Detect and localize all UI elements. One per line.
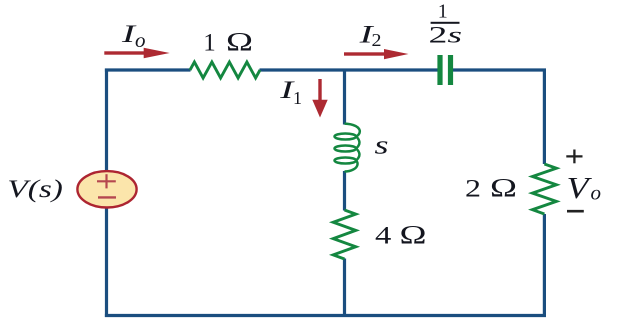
resistor R 1ohm horizontal (190, 62, 260, 78)
arrow I2 current (344, 49, 409, 59)
arrow Io current (104, 48, 169, 58)
label 4 ohm (375, 221, 427, 250)
resistor R 2ohm vertical (532, 164, 556, 214)
label I1 (279, 75, 302, 108)
svg-text:1: 1 (438, 1, 448, 23)
voltage source V(s) (77, 171, 136, 207)
wire middle vertical upper (343, 69, 346, 125)
label plus Vo (566, 150, 582, 164)
svg-text:V(s): V(s) (7, 176, 63, 203)
svg-text:2s: 2s (429, 22, 463, 47)
svg-text:V: V (567, 170, 593, 205)
svg-text:o: o (135, 30, 146, 52)
capacitor C 1/2s plates (440, 55, 451, 85)
label capacitor value 1/2s (429, 1, 463, 48)
label I2 (358, 20, 381, 51)
label Io (120, 19, 145, 52)
inductor L s coil (335, 124, 360, 172)
resistor R 4ohm vertical (333, 210, 356, 259)
wire top segment right (453, 68, 546, 71)
wire right vertical lower (543, 214, 546, 317)
svg-text:o: o (591, 183, 602, 205)
svg-text:Ω: Ω (490, 173, 517, 202)
wire bottom horizontal (105, 314, 546, 317)
wire right vertical upper (543, 69, 546, 165)
wire top segment middle (260, 68, 438, 71)
svg-text:s: s (375, 131, 389, 160)
wire middle vertical lower (343, 259, 346, 318)
label 1 ohm (203, 28, 253, 57)
svg-text:1: 1 (293, 88, 302, 108)
wire middle vertical between L and R (343, 171, 346, 211)
svg-text:Ω: Ω (400, 221, 427, 250)
arrow I1 current (312, 79, 327, 118)
svg-text:1: 1 (203, 30, 216, 57)
label minus Vo (567, 210, 584, 213)
svg-text:4: 4 (375, 223, 392, 250)
svg-text:Ω: Ω (226, 28, 253, 57)
label Vo (567, 170, 602, 205)
wire top segment left (105, 68, 191, 71)
label 2 ohm (465, 173, 517, 202)
svg-text:2: 2 (372, 30, 382, 50)
wire left vertical (105, 69, 108, 318)
svg-text:2: 2 (465, 175, 481, 202)
